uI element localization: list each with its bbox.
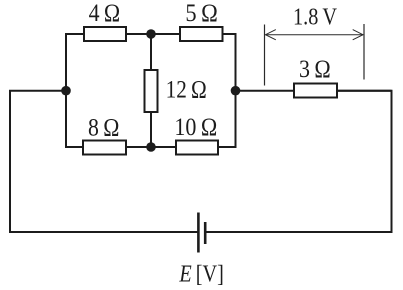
svg-text:8 Ω: 8 Ω [88,114,119,141]
svg-text:5 Ω: 5 Ω [185,0,217,27]
svg-text:3 Ω: 3 Ω [299,56,331,83]
svg-text:E [V]: E [V] [179,262,224,288]
svg-text:1.8 V: 1.8 V [293,4,338,30]
svg-text:10 Ω: 10 Ω [174,114,217,141]
svg-text:12 Ω: 12 Ω [166,77,207,104]
svg-text:4 Ω: 4 Ω [89,0,121,27]
